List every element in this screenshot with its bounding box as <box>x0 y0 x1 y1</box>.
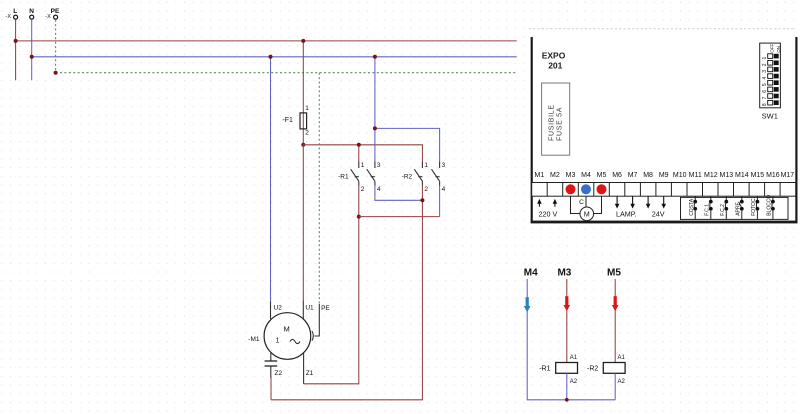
wire PE branch to motor <box>318 73 320 304</box>
svg-text:M2: M2 <box>550 172 560 179</box>
contact R1 pole 1-2 <box>351 161 359 185</box>
DIP switch SW1 <box>760 43 782 121</box>
wire PE bus <box>56 72 517 74</box>
svg-text:-X: -X <box>45 14 51 20</box>
svg-text:-F1: -F1 <box>282 117 293 124</box>
wire R2 pole2 bottom to capacitor <box>271 186 422 400</box>
svg-text:4: 4 <box>377 186 381 193</box>
svg-text:201: 201 <box>548 61 562 71</box>
wire N bus <box>32 56 517 58</box>
switch F.C.1. <box>704 196 712 219</box>
svg-text:2: 2 <box>762 63 768 66</box>
svg-text:24V: 24V <box>652 210 665 219</box>
svg-text:N: N <box>29 8 34 15</box>
svg-text:M3: M3 <box>566 172 576 179</box>
contact R2 pole 3-4 <box>432 161 440 185</box>
svg-text:M: M <box>584 211 590 218</box>
svg-text:U1: U1 <box>305 305 314 312</box>
plug arrow blue M4 <box>524 297 531 312</box>
panel fuse box FUSIBILE FUSE 5A <box>542 83 570 155</box>
svg-text:8: 8 <box>762 103 768 106</box>
node R2 bottom junction <box>420 198 424 202</box>
wire L bus <box>16 40 517 42</box>
svg-text:M16: M16 <box>766 172 780 179</box>
svg-text:U2: U2 <box>274 305 283 312</box>
svg-text:M9: M9 <box>659 172 669 179</box>
svg-text:220 V: 220 V <box>539 210 558 219</box>
wire M4 lead <box>527 279 615 400</box>
node fuse bottom junction <box>301 143 305 147</box>
svg-text:3: 3 <box>377 162 381 169</box>
svg-text:SW1: SW1 <box>762 112 778 121</box>
svg-text:-X: -X <box>6 14 12 20</box>
wire motor U1 stub <box>302 301 304 320</box>
svg-text:M14: M14 <box>735 172 749 179</box>
node coil return junction <box>565 398 569 402</box>
switch F.C.2 <box>720 196 728 219</box>
wire N branch to contacts <box>374 57 376 162</box>
svg-text:M5: M5 <box>597 172 607 179</box>
panel terminal labels M1-M17 <box>535 172 795 179</box>
svg-text:2: 2 <box>305 130 309 137</box>
svg-text:L: L <box>13 8 17 15</box>
contact R1 labels <box>338 162 381 193</box>
contact R2 labels <box>402 162 446 193</box>
svg-text:M15: M15 <box>751 172 765 179</box>
svg-text:-R2: -R2 <box>402 174 413 181</box>
coil R2 <box>587 355 625 385</box>
svg-text:BLOCCO: BLOCCO <box>767 195 773 216</box>
node R1 bottom junction <box>357 215 361 219</box>
panel motor symbol under M4 <box>571 196 602 220</box>
svg-text:M4: M4 <box>524 268 538 279</box>
svg-text:Z1: Z1 <box>306 370 314 377</box>
panel lamp/24V output arrows <box>615 196 666 208</box>
wire motor Z1 stub <box>303 353 305 384</box>
node R1 pole2 top junction <box>373 126 377 130</box>
coil R1 <box>539 355 578 385</box>
svg-text:1: 1 <box>276 338 280 345</box>
wire N to R2 pole2 <box>375 128 440 161</box>
terminal -X N <box>29 8 34 19</box>
svg-text:A1: A1 <box>618 355 626 361</box>
svg-text:APRE: APRE <box>735 202 741 216</box>
node R1 feed junction <box>357 143 361 147</box>
switch BLOCCO <box>767 195 775 220</box>
svg-text:FUSIBILE: FUSIBILE <box>548 104 555 141</box>
wire M3 lead <box>566 279 568 363</box>
wire L branch to fuse <box>302 41 304 145</box>
svg-text:1: 1 <box>762 56 768 59</box>
EXPO 201 panel <box>529 29 798 224</box>
plug socket M4 blue <box>581 184 591 194</box>
svg-text:FUSE 5A: FUSE 5A <box>556 107 563 141</box>
fuse F1 <box>282 105 309 136</box>
svg-text:M1: M1 <box>535 172 545 179</box>
panel top dashed edge <box>529 28 796 30</box>
capacitor C motor <box>265 353 278 378</box>
svg-text:M11: M11 <box>689 172 702 179</box>
switch FOTOC. <box>751 196 759 219</box>
svg-text:M13: M13 <box>719 172 733 179</box>
svg-text:M5: M5 <box>607 268 621 279</box>
terminal -X L <box>6 8 18 20</box>
svg-text:M8: M8 <box>643 172 653 179</box>
wire R1 pole1 top <box>358 145 360 162</box>
svg-text:1: 1 <box>305 105 309 112</box>
wire R2 pole4 bottom <box>439 186 441 217</box>
svg-text:4: 4 <box>442 186 446 193</box>
plug arrow red M3 <box>564 296 571 311</box>
svg-text:M: M <box>283 324 289 333</box>
motor M1 <box>248 313 310 360</box>
svg-text:2: 2 <box>361 186 365 193</box>
svg-text:4: 4 <box>762 76 768 79</box>
svg-text:3: 3 <box>762 70 768 73</box>
svg-text:2: 2 <box>424 186 428 193</box>
wire M5 lead <box>614 279 616 363</box>
node N bus junction <box>30 55 34 59</box>
svg-text:OFF: OFF <box>770 44 775 53</box>
svg-text:F.C.1.: F.C.1. <box>704 203 710 216</box>
svg-text:Z2: Z2 <box>275 370 283 377</box>
svg-text:7: 7 <box>762 96 768 99</box>
svg-text:M17: M17 <box>781 172 795 179</box>
svg-text:M4: M4 <box>581 172 591 179</box>
PE arc on motor body <box>312 331 313 341</box>
svg-text:PE: PE <box>321 305 330 312</box>
wire L feed horizontal to contacts <box>303 145 422 162</box>
svg-text:M6: M6 <box>612 172 622 179</box>
wire R1 pole4 bottom <box>375 186 423 201</box>
wire N branch to motor U2 <box>270 57 272 302</box>
svg-text:LAMP.: LAMP. <box>616 210 637 219</box>
svg-text:M12: M12 <box>704 172 718 179</box>
plug socket M5 red <box>597 184 607 194</box>
svg-text:C: C <box>579 199 584 206</box>
wire R1 pole1 bottom to Z1 <box>304 186 359 384</box>
svg-text:-R1: -R1 <box>539 365 550 372</box>
wire capacitor to bottom rail <box>270 377 272 400</box>
panel input switches box <box>681 197 789 219</box>
plug socket M3 red <box>566 184 576 194</box>
svg-text:PE: PE <box>51 8 60 15</box>
panel terminal strip <box>532 183 796 197</box>
svg-text:3: 3 <box>442 162 446 169</box>
node N contact branch junction <box>373 55 377 59</box>
wire motor PE stub <box>314 304 319 336</box>
wire R2 pole4 to R1 junction <box>359 216 440 218</box>
svg-text:-R2: -R2 <box>587 365 598 372</box>
panel 220V input arrows <box>537 199 557 207</box>
switch COSTA <box>689 196 697 219</box>
switch APRE <box>735 196 743 219</box>
wire coil R1 A2 <box>566 373 568 400</box>
node L bus junction <box>14 39 18 43</box>
svg-text:M10: M10 <box>673 172 687 179</box>
svg-text:-R1: -R1 <box>338 174 349 181</box>
contact R1 pole 3-4 <box>367 161 375 185</box>
wire N vertical <box>31 20 33 81</box>
wire L to motor U1 <box>302 145 304 301</box>
svg-text:1: 1 <box>424 162 428 169</box>
plug arrow red M5 <box>612 296 619 311</box>
wire coil R2 A2 <box>614 373 616 400</box>
svg-text:M3: M3 <box>557 268 571 279</box>
svg-text:M7: M7 <box>628 172 638 179</box>
panel right border <box>795 37 797 222</box>
svg-text:5: 5 <box>762 83 768 86</box>
svg-text:A1: A1 <box>570 355 578 361</box>
svg-text:A2: A2 <box>570 379 578 385</box>
contact R2 pole 1-2 <box>414 161 422 185</box>
svg-text:EXPO: EXPO <box>542 50 566 60</box>
motor terminal labels <box>274 305 331 377</box>
svg-text:A2: A2 <box>618 379 626 385</box>
panel left border <box>531 37 533 222</box>
node N branch junction <box>269 55 273 59</box>
svg-text:F.C.2: F.C.2 <box>720 204 726 216</box>
svg-text:6: 6 <box>762 90 768 93</box>
svg-text:1: 1 <box>361 162 365 169</box>
wire PE vertical <box>55 20 57 73</box>
node PE bus junction <box>54 71 58 75</box>
terminal -X PE <box>45 8 60 20</box>
panel bottom bar <box>531 221 798 224</box>
svg-text:ON: ON <box>776 46 781 53</box>
svg-text:-M1: -M1 <box>248 336 260 343</box>
svg-text:COSTA: COSTA <box>689 198 695 216</box>
wire motor U2 stub <box>270 302 272 319</box>
wire L vertical <box>15 20 17 81</box>
svg-text:FOTOC.: FOTOC. <box>751 197 757 216</box>
node L branch junction <box>301 39 305 43</box>
